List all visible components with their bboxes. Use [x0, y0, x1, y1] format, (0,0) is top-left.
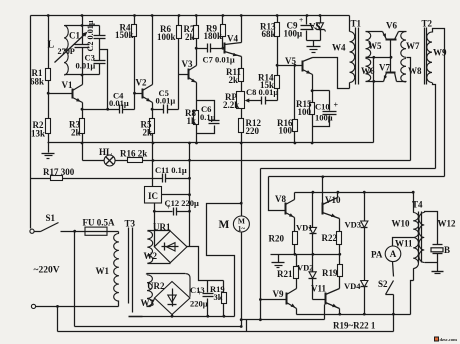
transistor V6 — [383, 21, 407, 40]
label ~220V — [34, 266, 60, 276]
capacitor C11 — [155, 165, 190, 183]
IC regulator box — [145, 187, 162, 204]
wire V4 emitter to R11 — [241, 57, 243, 69]
fuse FU 0.5A — [83, 217, 115, 235]
svg-text:T1: T1 — [351, 19, 362, 29]
svg-text:100k: 100k — [157, 32, 176, 42]
wire center tap drop to mid rail — [373, 58, 375, 143]
wire bridge output line — [295, 192, 414, 194]
diode VD4 — [344, 228, 368, 315]
wire W9 top to bridge feed — [433, 29, 445, 177]
wire supply node vertical — [189, 143, 191, 247]
svg-text:180k: 180k — [204, 31, 223, 41]
ground under C9 VS — [307, 47, 321, 53]
svg-text:R19: R19 — [322, 268, 338, 278]
svg-text:W5: W5 — [368, 41, 382, 51]
svg-text:V4: V4 — [227, 34, 238, 44]
winding W9 — [427, 32, 447, 83]
resistor R4 — [115, 16, 137, 110]
svg-text:R16 2k: R16 2k — [120, 149, 147, 159]
svg-text:2k: 2k — [143, 128, 153, 138]
wire S1 to fuse — [61, 231, 85, 233]
svg-text:R21: R21 — [277, 269, 293, 279]
winding W8 — [401, 59, 422, 82]
winding W2 — [144, 231, 158, 263]
svg-text:V6: V6 — [386, 21, 397, 31]
wire mains neutral rail — [58, 331, 394, 333]
wire top supply rail — [31, 15, 350, 17]
svg-text:2k: 2k — [229, 75, 239, 85]
transistor V8 — [275, 193, 295, 218]
capacitor C1 variable — [55, 31, 90, 63]
svg-text:C7 0.01μ: C7 0.01μ — [203, 55, 235, 65]
transformer T4 core — [412, 200, 423, 263]
wire V11 base — [313, 299, 326, 301]
motor M — [219, 143, 250, 233]
svg-text:V11: V11 — [311, 284, 327, 294]
resistor R19 (3k) — [210, 281, 227, 317]
transistor V4 — [225, 16, 242, 57]
svg-text:PA: PA — [371, 250, 383, 260]
resistor R3 — [69, 119, 85, 161]
wire C9 VS common — [307, 41, 321, 47]
capacitor C8 — [246, 87, 278, 105]
zener VS — [309, 16, 326, 41]
wire W3 top to UR2 — [147, 274, 191, 297]
wire W5-W6 center tap — [366, 57, 391, 59]
svg-text:+: + — [334, 101, 339, 110]
wire V10 base drop — [322, 177, 324, 203]
winding W7 — [401, 32, 420, 58]
capacitor C12 — [155, 198, 200, 216]
winding W1 — [96, 232, 119, 307]
winding W5 — [366, 32, 383, 58]
winding W4 — [332, 16, 355, 89]
svg-text:V3: V3 — [182, 59, 193, 69]
svg-text:150k: 150k — [115, 30, 134, 40]
wire fuse to W1 — [107, 231, 119, 233]
bridge rectifier UR1 — [153, 222, 187, 263]
transistor V2 — [136, 16, 153, 103]
transistor V7 — [379, 63, 407, 82]
svg-text:R19~R22 1: R19~R22 1 — [333, 320, 376, 330]
wire V6 V7 common base — [390, 40, 392, 73]
svg-text:V9: V9 — [273, 289, 284, 299]
wire W10-W11 tap to meter — [393, 238, 414, 247]
resistor R7 — [184, 16, 199, 66]
wire W6 bottom to V7 — [366, 81, 384, 83]
label R19~R22 — [333, 320, 376, 330]
lamp HL — [99, 147, 115, 166]
winding W3 — [141, 275, 155, 308]
svg-text:VD4: VD4 — [344, 281, 361, 291]
winding W11 — [395, 238, 419, 269]
svg-text:VS: VS — [309, 22, 321, 32]
wire mid common rail — [48, 142, 374, 144]
potentiometer RP — [223, 92, 262, 111]
resistor R20 — [269, 218, 298, 255]
wire V5 base — [278, 65, 303, 67]
wire left border supply line — [30, 16, 32, 229]
wire W2 top to UR1 — [148, 230, 171, 232]
svg-text:S1: S1 — [46, 213, 56, 223]
svg-text:68k: 68k — [262, 29, 276, 39]
wire UR2 bottom to rail — [172, 315, 174, 317]
svg-text:2.2k: 2.2k — [223, 100, 239, 110]
svg-text:220: 220 — [246, 126, 260, 136]
svg-text:C2 0.01μ: C2 0.01μ — [86, 20, 95, 51]
svg-text:C12 220μ: C12 220μ — [165, 198, 200, 208]
svg-text:15k: 15k — [260, 80, 274, 90]
transformer T1 core — [351, 19, 362, 85]
svg-text:0.01μ: 0.01μ — [156, 96, 176, 106]
wire tank top — [65, 25, 100, 27]
switch S1 — [30, 213, 59, 233]
svg-text:R17 300: R17 300 — [43, 167, 75, 177]
transistor V11 — [311, 284, 340, 309]
svg-text:1~: 1~ — [238, 225, 246, 233]
meter PA — [371, 246, 401, 262]
svg-text:A: A — [390, 249, 397, 259]
wire S2 down — [393, 295, 395, 332]
wire bridge drive line — [269, 176, 445, 178]
resistor R8 — [185, 108, 199, 143]
svg-text:B: B — [444, 245, 450, 255]
capacitor C9 — [284, 15, 314, 41]
winding W10 — [392, 193, 419, 238]
wire IC bottom to UR1 — [154, 203, 156, 247]
svg-text:100: 100 — [279, 126, 293, 136]
svg-text:R20: R20 — [269, 234, 285, 244]
svg-text:W12: W12 — [438, 219, 457, 229]
wire V8 base drop — [269, 177, 286, 211]
svg-text:M: M — [219, 219, 230, 231]
svg-text:0.01μ: 0.01μ — [76, 61, 96, 71]
wire W12 top to B — [425, 212, 438, 245]
resistor R21 — [277, 255, 299, 289]
resistor R22 — [322, 219, 342, 255]
wire fuse junction drop — [74, 232, 76, 327]
transistor V1 — [62, 75, 83, 103]
wire meter to S2 — [393, 262, 394, 277]
ground under B — [432, 272, 444, 274]
transistor V3 — [182, 59, 197, 83]
wire tank bottom — [65, 74, 100, 76]
svg-text:V2: V2 — [136, 78, 147, 88]
svg-text:L: L — [48, 40, 55, 51]
watermark — [435, 337, 458, 342]
transformer T2 core — [422, 19, 433, 85]
winding W12 — [419, 213, 456, 263]
svg-text:VD3: VD3 — [345, 220, 362, 230]
svg-text:0.01μ: 0.01μ — [109, 98, 129, 108]
svg-text:V7: V7 — [379, 63, 390, 73]
svg-text:V10: V10 — [325, 195, 341, 205]
resistor R6 — [157, 16, 182, 110]
svg-text:C13: C13 — [190, 285, 205, 295]
wire V1 base — [49, 93, 73, 95]
diode VD1 — [296, 193, 317, 255]
wire base return line — [242, 169, 325, 320]
svg-text:R22: R22 — [322, 233, 338, 243]
svg-text:100: 100 — [298, 107, 312, 117]
svg-text:100μ: 100μ — [284, 28, 303, 38]
transistor V10 — [323, 193, 341, 219]
svg-text:T4: T4 — [412, 200, 423, 210]
capacitor C6 parallel box — [197, 101, 220, 134]
svg-text:dzsc.com: dzsc.com — [440, 337, 458, 342]
svg-text:T2: T2 — [422, 19, 433, 29]
wire tank center line — [82, 16, 84, 75]
bridge rectifier UR2 — [147, 281, 190, 315]
wire V2 emitter node — [153, 103, 164, 119]
svg-text:2k: 2k — [185, 32, 195, 42]
svg-text:W1: W1 — [96, 266, 110, 276]
wire W12 bottom — [425, 262, 438, 264]
svg-text:T3: T3 — [125, 219, 136, 229]
resistor R9 — [204, 16, 226, 49]
winding W6 — [361, 59, 375, 82]
inductor L tank coil — [48, 26, 69, 76]
svg-text:UR2: UR2 — [147, 281, 165, 291]
capacitor C4 — [109, 91, 135, 114]
svg-text:1k: 1k — [187, 116, 197, 126]
wire V11 base bar down — [324, 305, 326, 320]
svg-text:VD2: VD2 — [297, 263, 314, 273]
wire V5 emitter node — [313, 75, 330, 103]
svg-text:100μ: 100μ — [315, 112, 333, 122]
resistor R15 — [296, 99, 315, 143]
wire W2 bottom to UR1 — [148, 263, 171, 265]
ground under R2 — [42, 154, 55, 159]
wire V9 base — [261, 299, 287, 301]
svg-text:C11 0.1μ: C11 0.1μ — [155, 165, 187, 175]
wire mains live rail — [75, 326, 242, 328]
svg-text:+: + — [299, 15, 303, 24]
wire motor bypass — [207, 204, 242, 317]
capacitor C7 — [197, 44, 235, 65]
svg-text:S2: S2 — [378, 279, 388, 289]
earphone B — [431, 245, 450, 256]
svg-text:C10: C10 — [315, 101, 330, 111]
svg-text:W4: W4 — [332, 43, 346, 53]
svg-text:W7: W7 — [406, 41, 420, 51]
wire V3 base — [179, 74, 189, 76]
wire motor bottom — [241, 233, 243, 327]
svg-text:FU 0.5A: FU 0.5A — [83, 217, 115, 227]
terminal 220V lower — [31, 304, 35, 308]
wire W3 bottom to UR2 — [147, 299, 155, 307]
wire bias bus — [271, 254, 340, 256]
wire W9 bottom return — [261, 168, 436, 170]
resistor R16 (100) — [277, 66, 298, 143]
svg-text:W2: W2 — [144, 251, 158, 261]
svg-text:270P: 270P — [58, 47, 75, 56]
resistor R14 — [258, 66, 280, 101]
wire W11 bottom — [411, 269, 414, 315]
transistor V5 — [285, 56, 313, 75]
resistor R13 — [260, 16, 280, 66]
svg-text:13k: 13k — [31, 129, 45, 139]
wire IC right to node — [162, 194, 190, 196]
core ground bar — [129, 316, 143, 318]
svg-text:68k: 68k — [30, 77, 44, 87]
wire emitter common — [297, 309, 411, 315]
diode VD3 — [345, 193, 368, 230]
svg-text:220μ: 220μ — [190, 298, 208, 308]
svg-text:0.1μ: 0.1μ — [200, 112, 216, 122]
resistor R1 — [30, 16, 51, 94]
svg-text:~220V: ~220V — [34, 266, 60, 276]
wire IC input from rail — [152, 143, 154, 187]
wire B to ground — [437, 254, 439, 272]
transistor V9 — [273, 289, 297, 309]
wire W7-W8 center tap down — [407, 58, 411, 161]
transformer T3 core — [125, 219, 136, 313]
svg-text:IC: IC — [148, 191, 158, 201]
resistor R5 — [141, 119, 155, 143]
capacitor C13 — [190, 281, 214, 317]
capacitor C5 — [156, 88, 179, 114]
resistor R16 (2k) — [120, 149, 147, 163]
ground on bias bus — [272, 255, 285, 268]
diode VD2 — [297, 255, 317, 300]
svg-text:V1: V1 — [62, 80, 73, 90]
wire W5 top to V6 — [366, 31, 383, 33]
wire neutral drop — [57, 307, 59, 332]
wire UR1 plus out — [187, 247, 224, 281]
wire V2 base — [135, 93, 143, 95]
svg-text:UR1: UR1 — [153, 222, 171, 232]
svg-text:VD1: VD1 — [296, 223, 313, 233]
resistor R2 — [31, 94, 51, 153]
capacitor C3 — [76, 53, 106, 75]
wire lamp feedback line — [83, 160, 411, 162]
svg-text:W10: W10 — [392, 219, 411, 229]
wire V1 emitter node — [83, 103, 120, 119]
wire stub — [246, 320, 248, 332]
svg-text:2k: 2k — [71, 128, 81, 138]
svg-text:3k: 3k — [214, 292, 223, 302]
switch S2 — [378, 279, 394, 295]
svg-text:C1: C1 — [69, 31, 80, 41]
wire lower mains — [36, 306, 119, 308]
wire V5 collector to W4 — [313, 58, 350, 89]
wire W9 bottom down — [433, 83, 436, 169]
svg-text:HL: HL — [99, 147, 112, 157]
capacitor C2 — [86, 20, 106, 60]
wire C2-C3 branch to emitter node — [100, 50, 108, 110]
capacitor C10 — [313, 91, 339, 127]
resistor R11 — [226, 67, 244, 92]
resistor R17 — [31, 167, 163, 181]
resistor R12 — [239, 109, 262, 143]
resistor R19 (bridge) — [322, 255, 343, 289]
wire V3 emitter to R8 — [196, 83, 198, 111]
wire supply minus rail — [129, 316, 235, 318]
svg-text:V8: V8 — [275, 194, 286, 204]
